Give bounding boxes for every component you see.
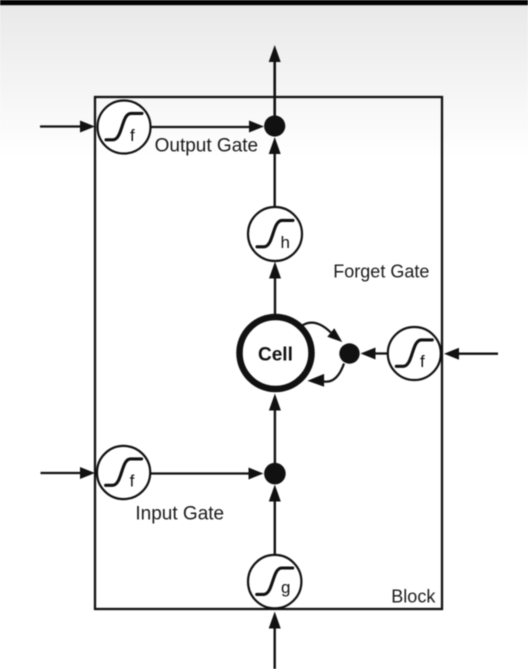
node: input multiply dot <box>264 463 286 485</box>
top black bar <box>0 0 528 5</box>
wire: external input arrow to g from bottom <box>269 612 281 669</box>
cell: CEC circle <box>240 317 312 389</box>
wire: external input arrow to forget gate from right <box>444 348 498 360</box>
svg-text:Input Gate: Input Gate <box>135 503 224 524</box>
svg-text:Cell: Cell <box>258 345 293 366</box>
wire: cell to h circle <box>269 262 281 315</box>
wire: input multiply node to cell <box>269 394 281 474</box>
op circle: forget gate sigmoid f <box>388 327 441 380</box>
svg-text:g: g <box>281 578 290 597</box>
wire: forget gate circle to forget multiply node <box>361 348 389 360</box>
wire: external input arrow to input gate <box>41 467 96 479</box>
wire: external input arrow to output gate <box>40 121 95 133</box>
node: forget multiply dot <box>339 343 359 363</box>
wire: cell self-loop upper arc to forget multiply node <box>300 323 342 343</box>
wire: output arrow up out of block <box>269 45 281 126</box>
wire: g circle to input multiply node <box>269 485 281 556</box>
wire: input gate to input multiply node <box>151 468 264 480</box>
wire: forget multiply node lower arc back to cell <box>307 364 344 387</box>
svg-text:Block: Block <box>391 586 436 606</box>
svg-text:f: f <box>130 472 135 491</box>
svg-text:f: f <box>420 352 425 371</box>
wire: h circle to output multiply node <box>269 137 281 207</box>
node: output multiply dot <box>264 115 285 136</box>
svg-text:Output Gate: Output Gate <box>155 136 259 157</box>
svg-text:h: h <box>281 233 290 252</box>
wire: output gate to output multiply node <box>151 121 264 133</box>
op circle: input squashing g <box>248 555 301 608</box>
svg-text:f: f <box>130 126 135 145</box>
op circle: input gate sigmoid f <box>97 446 150 499</box>
op circle: output squashing h <box>248 207 302 261</box>
op circle: output gate sigmoid f <box>98 101 151 154</box>
block rectangle <box>95 97 442 609</box>
top gradient strip <box>0 5 528 157</box>
svg-text:Forget Gate: Forget Gate <box>333 262 429 282</box>
